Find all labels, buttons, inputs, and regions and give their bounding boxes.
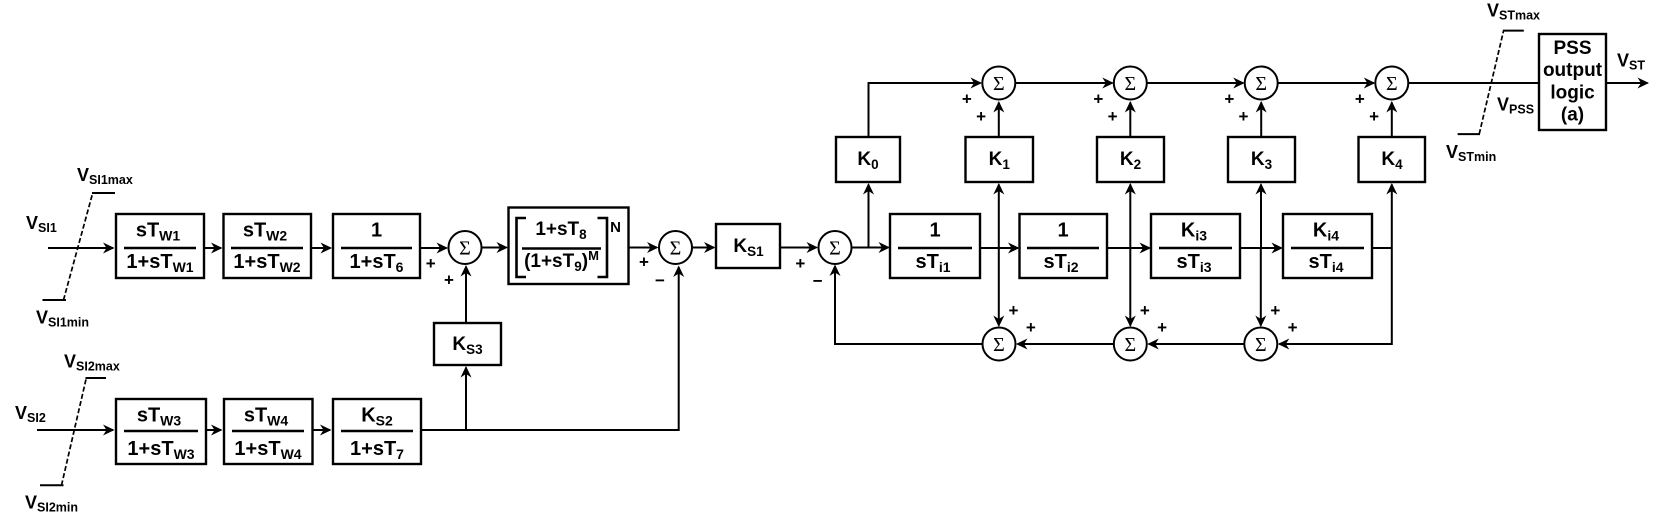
block Ki4/sTi4 <box>1283 214 1372 278</box>
block 1/sTi2 <box>1020 214 1108 278</box>
node VSTmin label <box>1446 142 1496 164</box>
svg-text:VSI1: VSI1 <box>26 213 57 235</box>
svg-text:VSI2max: VSI2max <box>64 352 120 374</box>
svg-text:VSI2: VSI2 <box>15 403 46 425</box>
summing junction T4 <box>1375 67 1408 100</box>
svg-text:−: − <box>655 271 665 290</box>
wire branch down to bottom sum B1 <box>998 248 1000 326</box>
svg-text:+: + <box>1224 89 1234 108</box>
wire <box>1107 247 1150 249</box>
wire branch up to KS3 <box>465 368 467 431</box>
summing junction B3 (bottom) <box>1244 328 1277 361</box>
wire <box>482 247 507 249</box>
wire B3 to B2 <box>1149 343 1244 345</box>
wire <box>313 429 331 431</box>
wire K4 branch down and left to bottom sum B3 <box>1279 248 1392 344</box>
block Ki3/sTi3 <box>1151 214 1240 278</box>
summing junction B2 (bottom) <box>1114 328 1147 361</box>
svg-text:+: + <box>426 254 436 273</box>
svg-text:Σ: Σ <box>993 334 1005 356</box>
wire VSI1 input <box>48 247 113 249</box>
wire branch up to K4 <box>1391 185 1393 249</box>
svg-text:output: output <box>1543 60 1603 81</box>
wire <box>204 247 221 249</box>
block K0 <box>836 137 900 182</box>
wire K1 to summing junction T1 <box>998 103 1000 138</box>
limiter VSI1max/VSI1min symbol <box>43 193 116 300</box>
svg-text:VSI2min: VSI2min <box>25 493 78 515</box>
node VSI1 input label <box>26 213 57 235</box>
block sTW2/(1+sTW2) <box>224 214 312 278</box>
wire K3 to summing junction T3 <box>1260 103 1262 138</box>
block 1/(1+sT6) <box>333 214 420 278</box>
block KS3 <box>434 323 501 365</box>
node VSI2min label <box>25 493 78 515</box>
wire K0 to top summing rail <box>869 83 981 137</box>
wire T1 to T2 <box>1016 82 1113 84</box>
svg-text:1+sT7: 1+sT7 <box>350 438 404 462</box>
wire B1 feedback to S3 <box>835 266 982 344</box>
wire <box>780 247 817 249</box>
svg-text:+: + <box>1009 301 1019 320</box>
svg-text:VSTmin: VSTmin <box>1446 142 1496 164</box>
limiter VSI2max/VSI2min symbol <box>40 378 106 485</box>
svg-text:VST: VST <box>1617 51 1645 73</box>
summing junction S3 <box>819 231 852 264</box>
wire <box>693 247 715 249</box>
svg-text:Σ: Σ <box>1386 73 1398 95</box>
block KS1 <box>716 224 780 268</box>
svg-text:1: 1 <box>371 220 382 242</box>
svg-text:+: + <box>976 107 986 126</box>
svg-text:+: + <box>795 254 805 273</box>
svg-text:+: + <box>1108 107 1118 126</box>
node VSTmax label <box>1487 1 1540 23</box>
svg-text:1: 1 <box>1057 220 1068 242</box>
node VSI2max label <box>64 352 120 374</box>
svg-text:VSI1min: VSI1min <box>36 308 89 330</box>
summing junction T3 <box>1245 67 1278 100</box>
svg-text:VSI1max: VSI1max <box>77 165 133 187</box>
svg-text:Σ: Σ <box>1124 73 1136 95</box>
block PSS output logic <box>1539 34 1606 130</box>
wire B2 to B1 <box>1018 343 1114 345</box>
svg-text:+: + <box>1355 89 1365 108</box>
wire K4 to summing junction T4 <box>1391 103 1393 138</box>
block K3 <box>1228 137 1295 182</box>
svg-text:+: + <box>1288 318 1298 337</box>
wire <box>980 247 1018 249</box>
svg-text:(a): (a) <box>1561 105 1584 126</box>
svg-text:+: + <box>1157 318 1167 337</box>
block sTW3/(1+sTW3) <box>116 399 206 464</box>
svg-text:VSTmax: VSTmax <box>1487 1 1540 23</box>
wire Ki4 output to K4 branch <box>1372 247 1392 249</box>
svg-text:Σ: Σ <box>1255 334 1267 356</box>
block K1 <box>966 137 1034 182</box>
summing junction B1 (bottom) <box>983 328 1016 361</box>
node VSI1min label <box>36 308 89 330</box>
svg-text:Σ: Σ <box>1124 334 1136 356</box>
svg-text:+: + <box>1093 89 1103 108</box>
svg-text:Σ: Σ <box>829 238 841 260</box>
svg-text:PSS: PSS <box>1553 38 1591 59</box>
summing junction S2 <box>659 231 692 264</box>
wire branch up to K3 <box>1260 185 1262 249</box>
svg-text:(1+sT9)M: (1+sT9)M <box>524 248 599 274</box>
limiter VSTmax/VSTmin symbol <box>1458 31 1524 135</box>
block ((1+sT8)/(1+sT9)^M)^N <box>509 208 629 285</box>
svg-text:logic: logic <box>1550 83 1595 104</box>
svg-text:+: + <box>639 252 649 271</box>
svg-text:+: + <box>1270 301 1280 320</box>
wire branch up to K0 <box>868 185 870 249</box>
wire T4 to PSS output logic <box>1408 82 1539 84</box>
svg-text:Σ: Σ <box>670 238 682 260</box>
wire branch up to K1 <box>998 185 1000 249</box>
svg-text:Σ: Σ <box>993 73 1005 95</box>
node VST label <box>1617 51 1645 73</box>
block K2 <box>1097 137 1164 182</box>
node VSI1max label <box>77 165 133 187</box>
wire T2 to T3 <box>1147 82 1243 84</box>
wire <box>629 247 658 249</box>
wire KS2 output to S2 <box>421 267 679 430</box>
svg-text:+: + <box>1369 107 1379 126</box>
block 1/sTi1 <box>890 214 980 278</box>
svg-text:1+sT6: 1+sT6 <box>350 251 404 275</box>
svg-text:+: + <box>444 271 454 290</box>
wire KS3 to S1 <box>465 267 467 324</box>
block KS2/(1+sT7) <box>333 399 421 464</box>
svg-text:N: N <box>610 219 621 236</box>
wire K2 to summing junction T2 <box>1129 103 1131 138</box>
wire <box>311 247 331 249</box>
svg-text:−: − <box>813 272 823 291</box>
wire T3 to T4 <box>1278 82 1374 84</box>
node VPSS label <box>1497 95 1534 117</box>
svg-text:+: + <box>1026 318 1036 337</box>
svg-text:+: + <box>1239 107 1249 126</box>
summing junction T2 <box>1114 67 1147 100</box>
node VSI2 input label <box>15 403 46 425</box>
block sTW4/(1+sTW4) <box>224 399 313 464</box>
wire <box>206 429 221 431</box>
wire <box>1240 247 1282 249</box>
wire VST output <box>1606 82 1648 84</box>
svg-text:+: + <box>1140 301 1150 320</box>
block K4 <box>1359 137 1426 182</box>
svg-text:+: + <box>962 89 972 108</box>
svg-text:Σ: Σ <box>1255 73 1267 95</box>
svg-text:1: 1 <box>929 220 940 242</box>
wire branch up to K2 <box>1129 185 1131 249</box>
wire branch down to bottom sum B3 <box>1260 248 1262 326</box>
svg-text:VPSS: VPSS <box>1497 95 1534 117</box>
wire branch down to bottom sum B2 <box>1129 248 1131 326</box>
wire <box>420 247 447 249</box>
block sTW1/(1+sTW1) <box>116 214 204 278</box>
wire VSI2 input <box>37 429 113 431</box>
summing junction S1 <box>449 231 482 264</box>
svg-text:Σ: Σ <box>459 238 471 260</box>
wire <box>852 247 889 249</box>
summing junction T1 <box>982 67 1015 100</box>
